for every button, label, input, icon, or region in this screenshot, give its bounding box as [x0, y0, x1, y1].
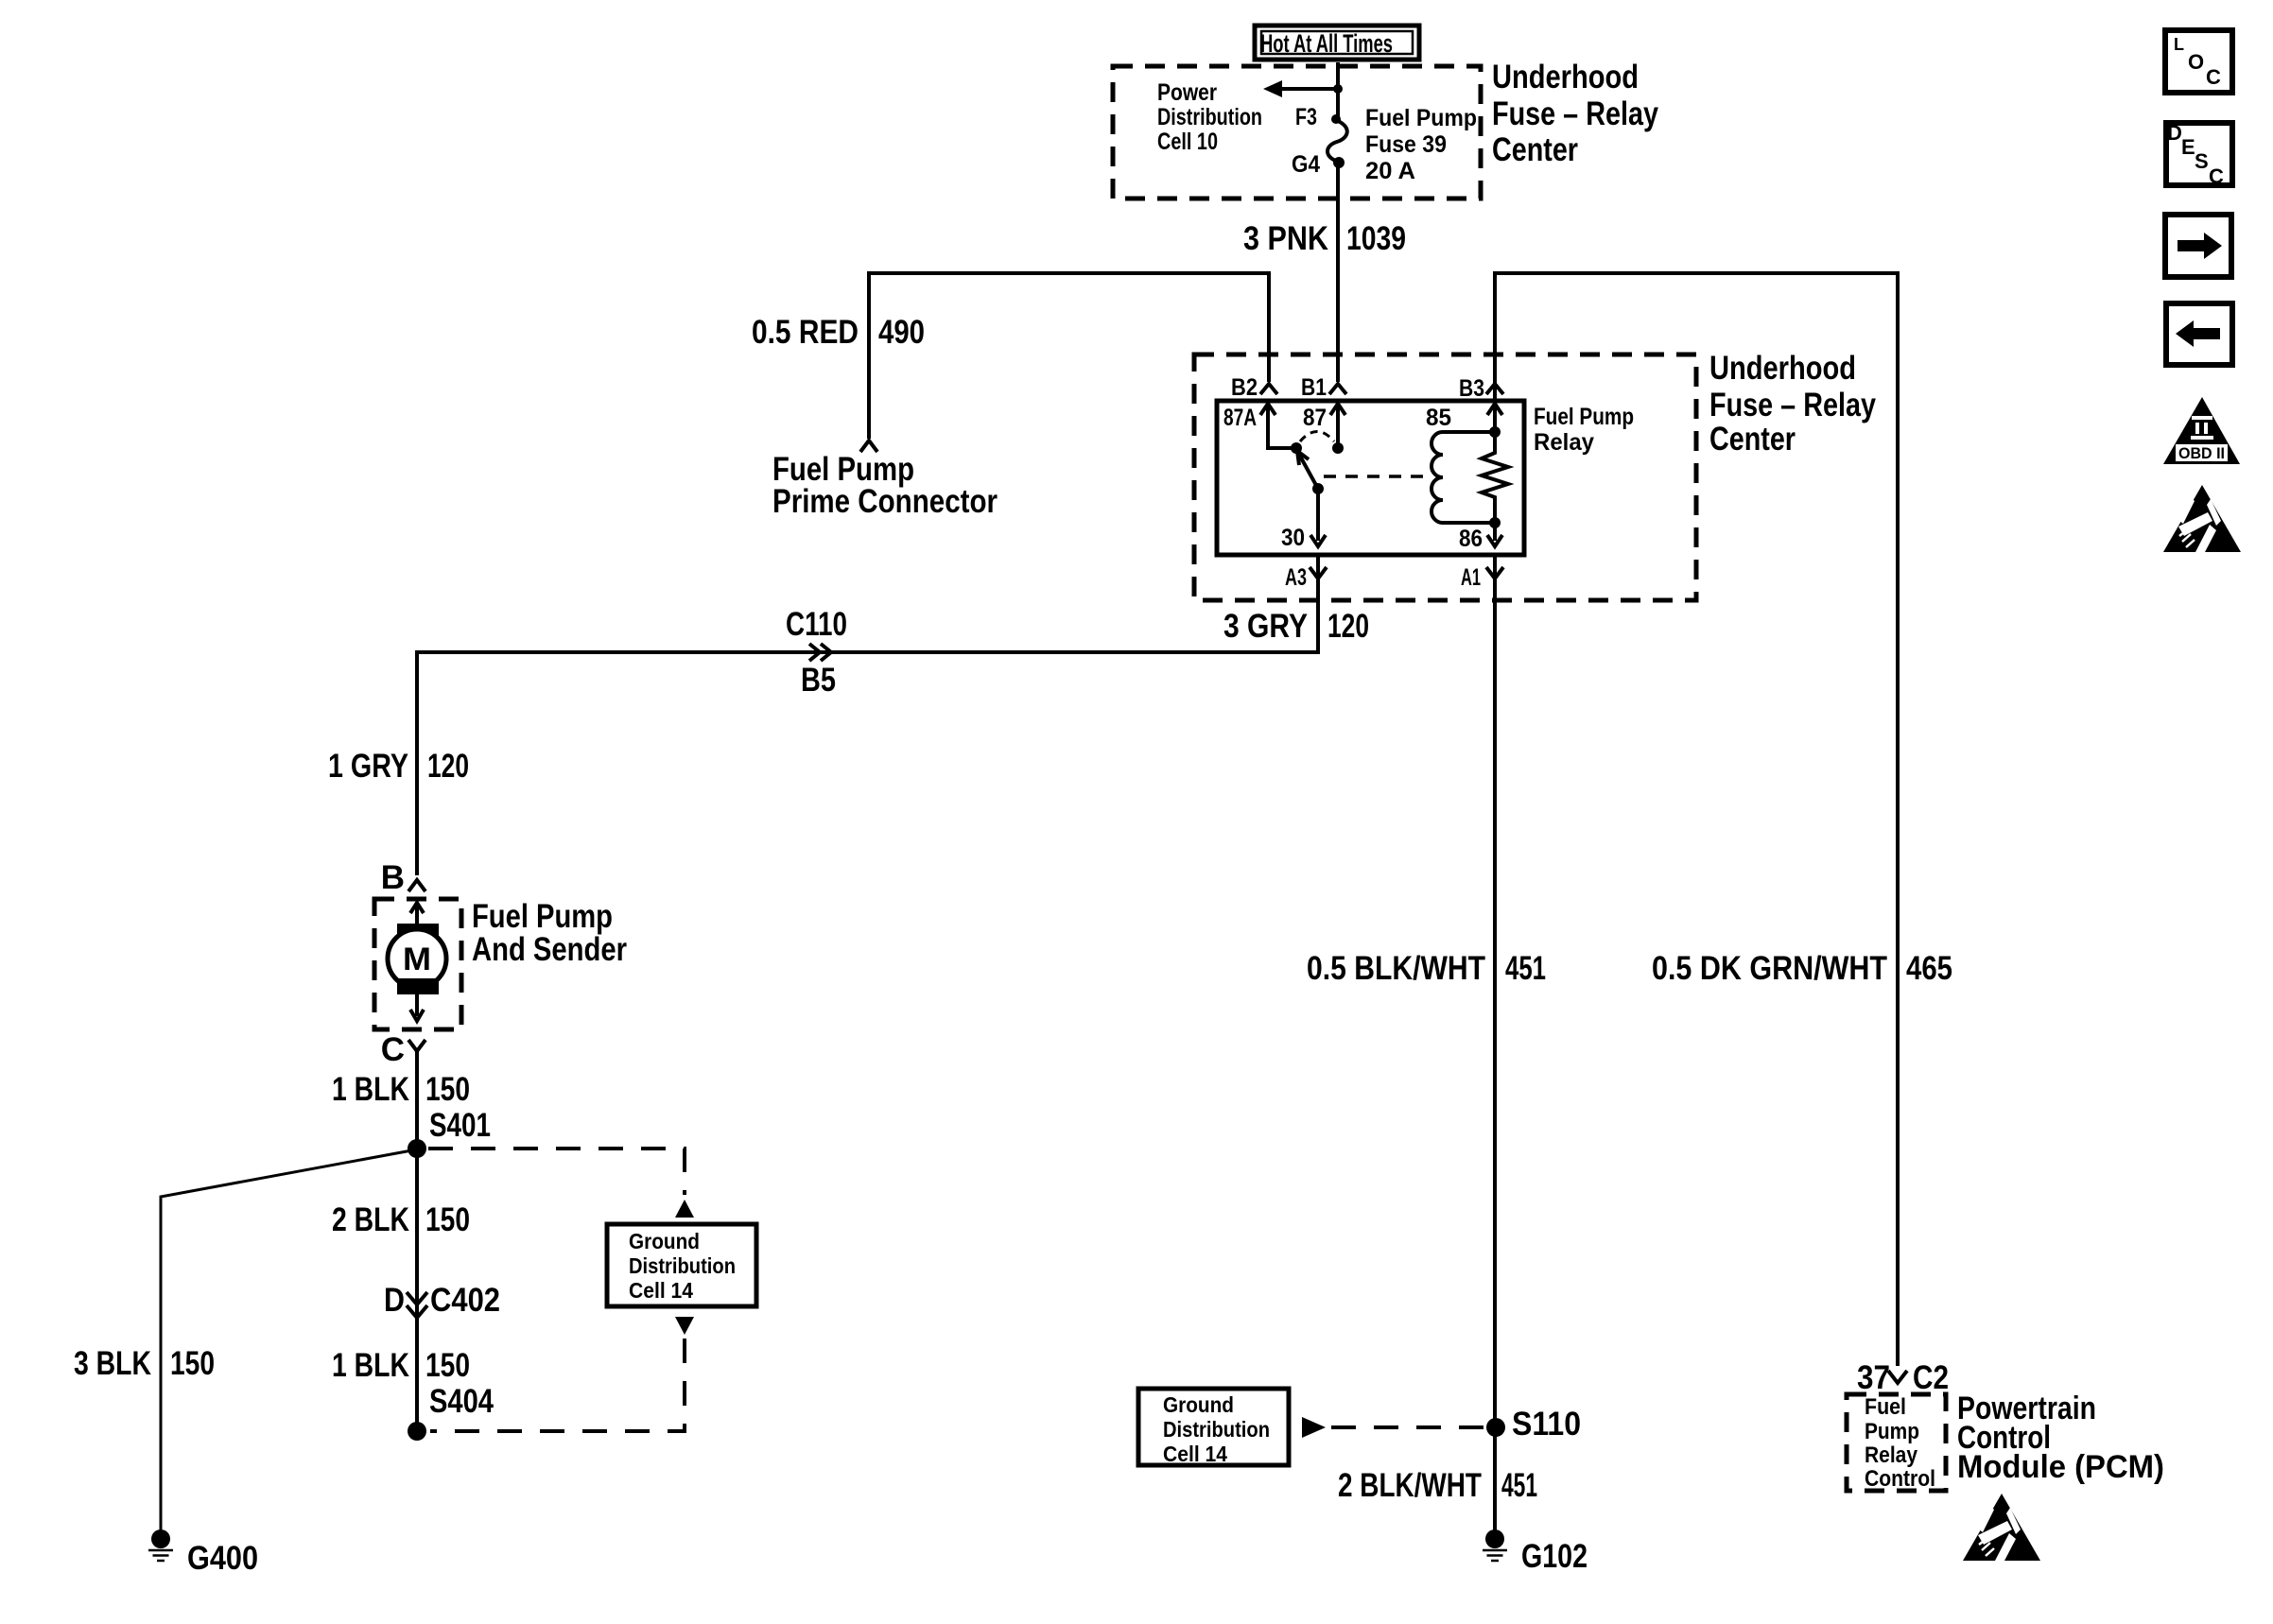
svg-text:B5: B5	[801, 662, 836, 699]
svg-text:Underhood: Underhood	[1492, 59, 1639, 95]
svg-text:Distribution: Distribution	[629, 1253, 736, 1278]
svg-text:B1: B1	[1301, 374, 1327, 401]
svg-text:Center: Center	[1492, 131, 1578, 168]
svg-text:1 GRY: 1 GRY	[328, 748, 408, 785]
svg-text:E: E	[2181, 135, 2195, 159]
svg-text:C: C	[2206, 65, 2221, 89]
svg-text:451: 451	[1501, 1467, 1537, 1504]
svg-text:B2: B2	[1231, 374, 1258, 401]
svg-text:Module (PCM): Module (PCM)	[1957, 1449, 2164, 1485]
svg-text:OBD II: OBD II	[2178, 444, 2225, 462]
svg-text:L: L	[2174, 35, 2184, 54]
svg-text:C110: C110	[786, 606, 847, 643]
svg-text:87: 87	[1303, 405, 1327, 431]
svg-text:Distribution: Distribution	[1157, 104, 1262, 130]
svg-text:Relay: Relay	[1865, 1443, 1918, 1468]
svg-text:3 PNK: 3 PNK	[1243, 220, 1328, 257]
svg-text:0.5 RED: 0.5 RED	[752, 314, 859, 351]
svg-text:85: 85	[1426, 405, 1451, 431]
svg-text:Fuel Pump: Fuel Pump	[1534, 404, 1634, 430]
svg-text:Cell 10: Cell 10	[1157, 129, 1218, 155]
svg-text:150: 150	[425, 1347, 470, 1384]
svg-text:2 BLK/WHT: 2 BLK/WHT	[1338, 1467, 1482, 1504]
svg-text:1 BLK: 1 BLK	[332, 1071, 409, 1108]
svg-text:S110: S110	[1512, 1406, 1581, 1443]
svg-text:O: O	[2188, 50, 2204, 74]
svg-text:A1: A1	[1461, 564, 1481, 591]
svg-text:C402: C402	[430, 1282, 500, 1319]
svg-text:A3: A3	[1285, 564, 1307, 591]
svg-text:Pump: Pump	[1865, 1419, 1919, 1444]
svg-text:Distribution: Distribution	[1163, 1417, 1270, 1442]
svg-text:Fuel Pump: Fuel Pump	[1365, 105, 1477, 131]
svg-text:B3: B3	[1459, 375, 1484, 402]
svg-text:86: 86	[1459, 526, 1483, 552]
svg-text:3 GRY: 3 GRY	[1223, 608, 1308, 645]
svg-text:S: S	[2195, 149, 2209, 173]
svg-text:Power: Power	[1157, 79, 1217, 106]
svg-text:M: M	[403, 942, 431, 977]
svg-text:150: 150	[170, 1345, 215, 1382]
svg-text:Fuel: Fuel	[1865, 1394, 1906, 1420]
svg-text:Center: Center	[1709, 421, 1796, 458]
svg-text:Cell 14: Cell 14	[629, 1278, 693, 1303]
svg-text:Prime Connector: Prime Connector	[772, 483, 998, 520]
svg-text:120: 120	[1327, 608, 1369, 645]
svg-text:0.5 DK GRN/WHT: 0.5 DK GRN/WHT	[1652, 950, 1887, 987]
svg-text:1 BLK: 1 BLK	[332, 1347, 409, 1384]
svg-text:465: 465	[1906, 950, 1952, 987]
svg-text:C: C	[381, 1031, 405, 1068]
svg-text:3 BLK: 3 BLK	[74, 1345, 151, 1382]
svg-text:Relay: Relay	[1534, 429, 1594, 456]
svg-text:D: D	[2167, 121, 2182, 145]
svg-text:1039: 1039	[1346, 220, 1406, 257]
svg-text:B: B	[381, 859, 405, 896]
svg-text:Ground: Ground	[1163, 1392, 1234, 1417]
svg-text:490: 490	[878, 314, 925, 351]
svg-text:C: C	[2209, 164, 2224, 188]
svg-text:G400: G400	[187, 1540, 258, 1577]
svg-text:Cell 14: Cell 14	[1163, 1442, 1227, 1466]
svg-text:150: 150	[425, 1071, 470, 1108]
svg-text:Hot At All Times: Hot At All Times	[1260, 29, 1393, 58]
svg-text:C2: C2	[1913, 1359, 1949, 1396]
svg-text:Ground: Ground	[629, 1229, 700, 1253]
svg-text:Fuse 39: Fuse 39	[1365, 131, 1447, 158]
svg-text:D: D	[384, 1282, 405, 1319]
svg-text:G4: G4	[1292, 151, 1320, 178]
svg-text:S404: S404	[429, 1383, 494, 1420]
svg-text:150: 150	[425, 1201, 470, 1238]
svg-text:451: 451	[1505, 950, 1546, 987]
svg-text:Underhood: Underhood	[1709, 350, 1856, 387]
svg-text:Control: Control	[1865, 1466, 1935, 1492]
svg-text:20 A: 20 A	[1365, 158, 1415, 184]
svg-text:S401: S401	[429, 1107, 491, 1144]
svg-text:120: 120	[427, 748, 469, 785]
svg-text:And Sender: And Sender	[472, 931, 627, 968]
svg-text:F3: F3	[1295, 104, 1317, 130]
svg-text:G102: G102	[1521, 1538, 1588, 1575]
svg-text:2 BLK: 2 BLK	[332, 1201, 409, 1238]
svg-text:Fuel Pump: Fuel Pump	[472, 898, 613, 935]
svg-text:Fuse – Relay: Fuse – Relay	[1492, 95, 1658, 132]
svg-text:37: 37	[1857, 1359, 1890, 1396]
svg-text:Fuse – Relay: Fuse – Relay	[1709, 387, 1876, 423]
svg-text:30: 30	[1281, 525, 1305, 551]
svg-text:87A: 87A	[1223, 405, 1257, 431]
svg-text:0.5 BLK/WHT: 0.5 BLK/WHT	[1307, 950, 1485, 987]
